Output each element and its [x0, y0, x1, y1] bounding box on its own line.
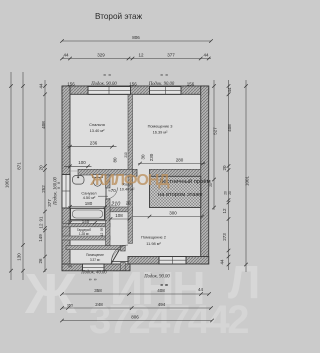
svg-text:248: 248	[95, 302, 103, 307]
room label hall	[120, 182, 135, 192]
svg-text:10.40 м²: 10.40 м²	[120, 187, 135, 192]
svg-text:Подок. 40.00: Подок. 40.00	[80, 271, 107, 276]
watermark orange	[89, 172, 170, 189]
svg-text:806: 806	[132, 35, 140, 40]
dim right 527	[209, 80, 218, 210]
svg-text:210: 210	[110, 201, 120, 207]
window top W2	[150, 87, 182, 95]
dim 300	[133, 210, 204, 218]
svg-text:12: 12	[222, 208, 227, 214]
door bathroom arc	[106, 188, 118, 200]
room label bedroom	[89, 122, 105, 133]
window left wall	[62, 175, 70, 209]
svg-text:527: 527	[213, 127, 218, 135]
svg-text:8: 8	[103, 74, 107, 76]
window top W1	[88, 87, 131, 95]
dim 140	[68, 219, 107, 225]
watermark big letters bottom	[24, 256, 260, 342]
svg-text:156: 156	[129, 81, 137, 86]
svg-text:8: 8	[160, 284, 164, 286]
svg-text:871: 871	[17, 162, 22, 170]
outer wall right	[201, 86, 209, 264]
svg-text:Второй этаж: Второй этаж	[95, 12, 143, 21]
svg-text:4.50 м²: 4.50 м²	[83, 195, 96, 200]
svg-text:100: 100	[78, 160, 86, 165]
room label bathroom	[81, 191, 96, 201]
svg-text:377: 377	[47, 199, 52, 207]
svg-text:180: 180	[85, 201, 93, 206]
window bottom right	[159, 257, 186, 265]
dims closet 95 12	[100, 228, 104, 237]
svg-text:Помещение: Помещение	[86, 253, 104, 257]
svg-text:377: 377	[167, 53, 175, 58]
svg-text:Помещение 3: Помещение 3	[148, 124, 173, 129]
svg-text:Подок. 160.00: Подок. 160.00	[54, 176, 59, 205]
svg-text:408: 408	[157, 288, 165, 293]
outer wall bottom right section	[128, 257, 209, 265]
svg-text:36|5: 36|5	[67, 303, 73, 307]
labels top windows	[67, 74, 195, 87]
dim 180	[68, 201, 107, 209]
door jambs room3	[137, 169, 150, 176]
svg-text:329: 329	[97, 53, 105, 58]
door bedroom opening tick	[70, 170, 78, 172]
svg-text:Помещение 2: Помещение 2	[141, 235, 166, 240]
svg-text:13.40 м²: 13.40 м²	[90, 128, 105, 133]
svg-text:16.39 м²: 16.39 м²	[153, 130, 168, 135]
interior wall bathroom right v2	[106, 175, 111, 246]
dim 280	[138, 157, 205, 165]
dim 80 rotated	[113, 157, 118, 163]
stairwell label	[158, 178, 211, 198]
label left window	[47, 176, 61, 206]
interior wall room3 bottom h2	[133, 169, 201, 176]
svg-text:20: 20	[39, 165, 44, 171]
interior wall below bathtub h4	[62, 223, 110, 227]
dim top 806	[60, 35, 213, 43]
svg-text:230: 230	[149, 153, 154, 161]
svg-text:Подок. 90.00: Подок. 90.00	[148, 82, 175, 87]
title	[95, 12, 143, 21]
window bottom left	[83, 264, 105, 271]
label 210 door	[110, 201, 131, 208]
dim left 871-130	[17, 72, 25, 280]
svg-text:91: 91	[39, 216, 44, 222]
outer wall bottom left section	[62, 264, 130, 271]
dim right inner chain	[220, 80, 233, 270]
svg-text:494: 494	[158, 302, 166, 307]
svg-text:12: 12	[39, 223, 44, 229]
interior wall bedroom bottom h1	[78, 169, 133, 175]
svg-text:на втором этаже: на втором этаже	[158, 192, 203, 198]
svg-text:20: 20	[228, 191, 232, 195]
svg-text:≈70: ≈70	[108, 188, 116, 193]
interior wall small room right v3	[121, 246, 126, 271]
svg-text:8: 8	[165, 284, 169, 286]
svg-text:12: 12	[100, 233, 104, 237]
dim bottom 806	[60, 314, 214, 322]
svg-text:408: 408	[227, 124, 232, 132]
svg-text:64: 64	[68, 265, 72, 269]
svg-text:8: 8	[89, 278, 93, 280]
svg-text:8: 8	[108, 74, 112, 76]
svg-text:44: 44	[198, 287, 204, 292]
bathroom sink	[73, 176, 85, 185]
svg-text:358: 358	[94, 288, 102, 293]
dim bedroom 100	[64, 160, 92, 168]
dim top row2	[60, 53, 211, 61]
svg-text:8: 8	[160, 74, 164, 76]
dim bottom rowB	[60, 302, 213, 310]
toilet	[93, 175, 103, 187]
svg-text:408: 408	[41, 121, 46, 129]
svg-text:95: 95	[100, 228, 104, 232]
svg-text:11.98 м²: 11.98 м²	[146, 241, 161, 246]
dim bottom rowA	[60, 284, 211, 296]
svg-text:156: 156	[67, 81, 75, 86]
svg-text:30: 30	[141, 154, 146, 160]
svg-text:Спальня: Спальня	[89, 122, 105, 127]
svg-text:806: 806	[131, 314, 139, 319]
svg-text:140: 140	[82, 219, 90, 224]
svg-text:252: 252	[41, 185, 46, 193]
svg-text:20: 20	[222, 165, 227, 171]
dim left inner chain	[38, 80, 47, 272]
room label closet	[77, 228, 91, 236]
svg-text:44: 44	[39, 83, 44, 89]
label bottom windows	[68, 265, 170, 286]
svg-text:1.28 м²: 1.28 м²	[79, 232, 89, 236]
svg-text:280: 280	[176, 157, 184, 162]
outer wall top	[62, 86, 209, 94]
door room2 arc	[112, 245, 129, 262]
svg-text:3.37 м²: 3.37 м²	[90, 258, 100, 262]
svg-text:20: 20	[224, 191, 228, 195]
bathtub	[71, 208, 105, 219]
stairwell opening hatched	[150, 176, 201, 207]
svg-text:26: 26	[38, 258, 43, 264]
svg-text:273: 273	[222, 233, 227, 241]
dim right 1001	[244, 80, 250, 272]
dims 30 230 rotated	[124, 152, 154, 161]
outer wall left	[62, 86, 70, 271]
svg-text:108: 108	[115, 213, 123, 218]
svg-text:236: 236	[90, 141, 98, 146]
svg-text:300: 300	[169, 210, 177, 215]
svg-text:210: 210	[124, 152, 128, 158]
interior wall hall bottom h3	[110, 207, 133, 212]
svg-text:80: 80	[113, 157, 118, 163]
svg-text:8: 8	[94, 278, 98, 280]
dim bedroom 236	[68, 141, 117, 149]
svg-text:20: 20	[209, 183, 213, 187]
interior wall small room top h6	[66, 246, 125, 250]
svg-text:12: 12	[138, 53, 144, 58]
room label room3	[148, 124, 173, 135]
svg-text:156: 156	[187, 81, 195, 86]
svg-text:8: 8	[165, 74, 169, 76]
interior wall main vertical v1	[128, 94, 133, 243]
svg-text:1001: 1001	[5, 177, 10, 188]
interior wall closet bottom h5	[62, 236, 110, 240]
svg-text:26: 26	[126, 201, 132, 206]
svg-text:1001: 1001	[245, 175, 250, 186]
room interiors	[62, 86, 209, 271]
svg-text:37247442: 37247442	[89, 298, 248, 342]
svg-text:8: 8	[57, 187, 61, 189]
svg-text:44: 44	[220, 259, 225, 265]
svg-text:149: 149	[38, 234, 43, 242]
room label small	[86, 253, 104, 262]
room label room2	[141, 235, 166, 247]
svg-text:Подок. 90.00: Подок. 90.00	[143, 274, 170, 279]
dim left 1001	[5, 72, 13, 280]
svg-text:8: 8	[57, 182, 61, 184]
svg-text:Подок. 90.00: Подок. 90.00	[90, 82, 117, 87]
dim 70 door	[98, 188, 116, 196]
dim 108	[109, 213, 132, 221]
svg-text:44: 44	[63, 53, 69, 58]
svg-text:44: 44	[227, 87, 232, 93]
svg-text:130: 130	[17, 253, 22, 261]
door small room	[111, 250, 120, 265]
svg-text:44: 44	[203, 53, 209, 58]
